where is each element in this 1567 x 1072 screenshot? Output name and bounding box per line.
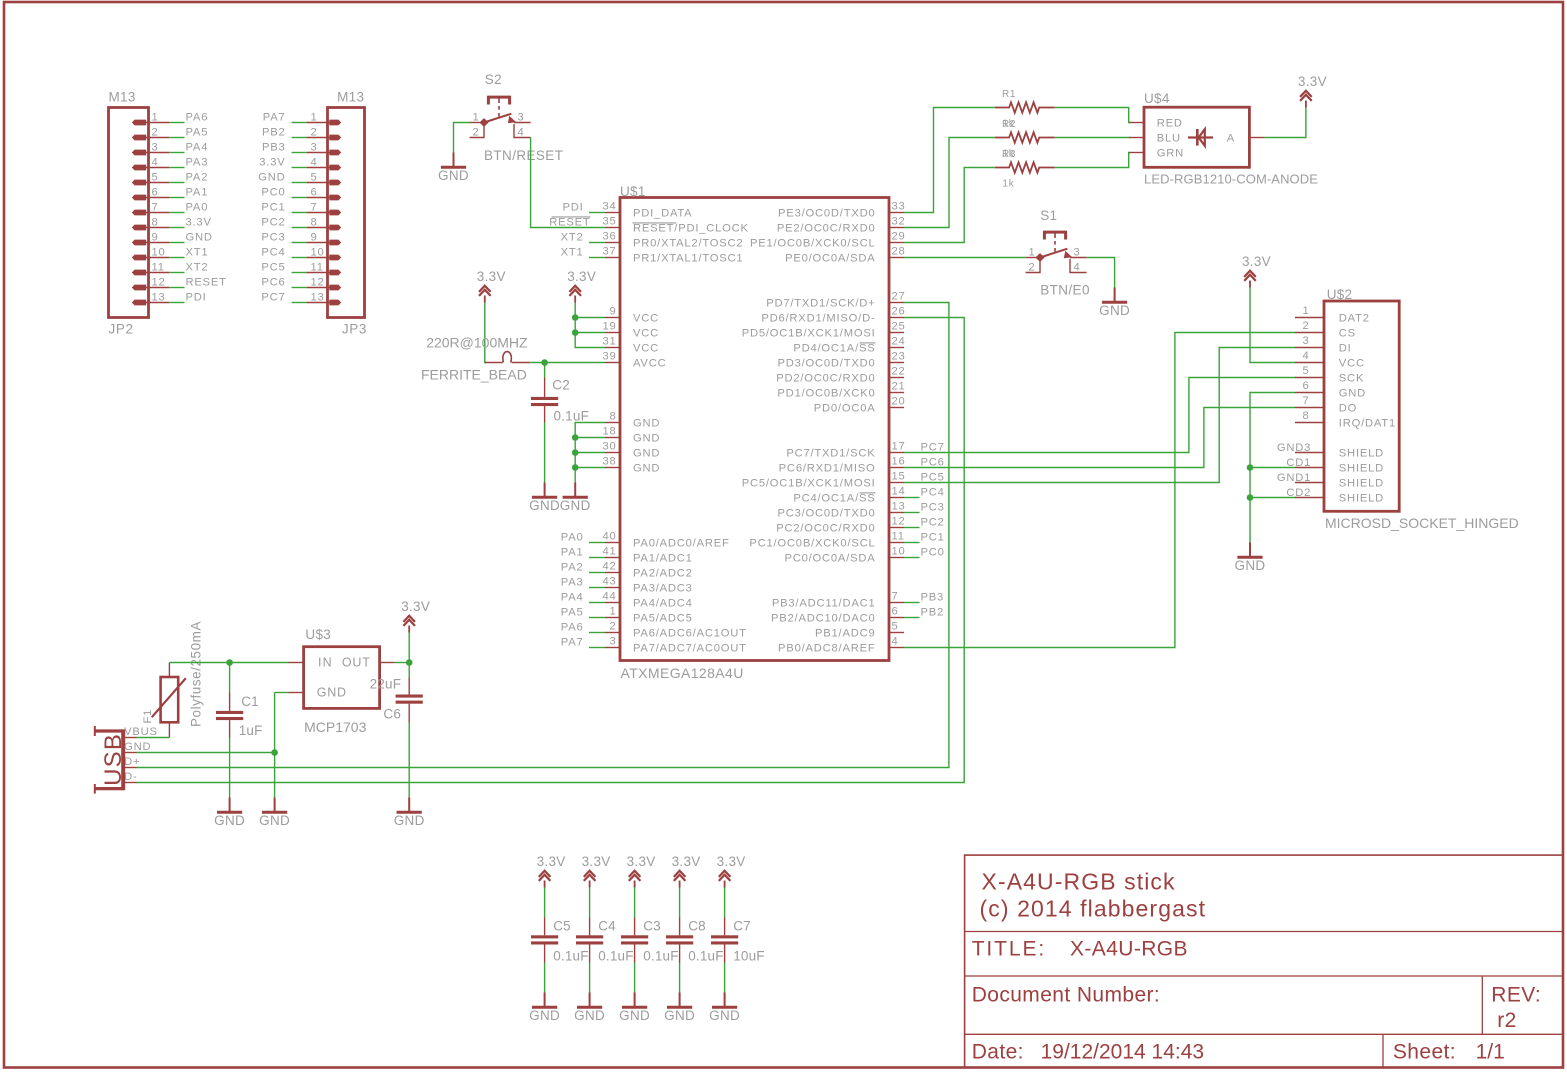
svg-text:14: 14 (892, 486, 906, 498)
ground below C1 (214, 798, 245, 829)
svg-text:10: 10 (892, 546, 906, 558)
svg-text:GND: GND (394, 813, 425, 828)
wire VCC pin 9 (575, 317, 605, 319)
svg-text:3.3V: 3.3V (627, 854, 656, 869)
svg-text:7: 7 (152, 202, 159, 214)
svg-text:U$2: U$2 (1327, 287, 1353, 302)
svg-text:(c) 2014 flabbergast: (c) 2014 flabbergast (980, 896, 1207, 922)
svg-text:31: 31 (602, 336, 616, 348)
wire GND pin 38 (575, 467, 605, 469)
supply 3.3V above ferrite bead (477, 269, 506, 302)
svg-text:37: 37 (602, 246, 616, 258)
svg-text:GRN: GRN (1157, 148, 1184, 160)
svg-text:Sheet:: Sheet: (1393, 1041, 1456, 1064)
svg-text:PR1/XTAL1/TOSC1: PR1/XTAL1/TOSC1 (633, 253, 743, 265)
svg-text:GND: GND (258, 172, 285, 184)
svg-text:10: 10 (311, 247, 325, 259)
svg-text:5: 5 (1302, 365, 1309, 377)
svg-text:2: 2 (311, 127, 318, 139)
svg-text:GND: GND (619, 1008, 650, 1023)
capacitor C3 0.1uF (621, 918, 679, 964)
svg-text:C5: C5 (553, 919, 571, 934)
svg-text:PA7: PA7 (263, 112, 286, 124)
svg-text:13: 13 (311, 292, 325, 304)
svg-text:4: 4 (892, 636, 899, 648)
svg-text:VCC: VCC (633, 343, 659, 355)
svg-text:IRQ/DAT1: IRQ/DAT1 (1339, 418, 1396, 430)
capacitor C5 0.1uF (531, 918, 589, 964)
svg-text:PA1: PA1 (561, 547, 584, 559)
svg-text:19/12/2014 14:43: 19/12/2014 14:43 (1041, 1041, 1205, 1064)
svg-text:3.3V: 3.3V (537, 854, 566, 869)
svg-text:6: 6 (152, 187, 159, 199)
svg-text:PB1/ADC9: PB1/ADC9 (815, 628, 876, 640)
svg-text:PC7/TXD1/SCK: PC7/TXD1/SCK (786, 448, 875, 460)
resistor R2 1k (995, 119, 1055, 160)
supply 3.3V at regulator output (401, 599, 430, 632)
svg-text:GND: GND (633, 448, 660, 460)
svg-text:C3: C3 (643, 919, 661, 934)
svg-text:12: 12 (311, 277, 325, 289)
net labels PC7 PC6 PC5 on SD wires (921, 442, 945, 484)
svg-text:12: 12 (152, 277, 166, 289)
svg-text:AVCC: AVCC (633, 358, 666, 370)
svg-text:220R@100MHZ: 220R@100MHZ (426, 334, 528, 350)
wire C2 top (544, 363, 546, 378)
svg-text:PB3: PB3 (921, 592, 945, 604)
svg-text:4: 4 (518, 127, 525, 139)
resistor R3 1k (995, 149, 1055, 190)
svg-text:3.3V: 3.3V (1242, 254, 1271, 269)
svg-text:C2: C2 (552, 378, 570, 393)
svg-text:1: 1 (472, 112, 479, 124)
svg-text:SHIELD: SHIELD (1339, 478, 1384, 490)
svg-text:15: 15 (892, 471, 906, 483)
svg-text:PA4: PA4 (186, 142, 209, 154)
svg-text:39: 39 (602, 351, 616, 363)
svg-text:22uF: 22uF (370, 676, 402, 691)
ground below S2 (438, 153, 469, 184)
svg-text:Document Number:: Document Number: (972, 984, 1160, 1007)
svg-text:1: 1 (152, 112, 159, 124)
svg-text:34: 34 (602, 201, 616, 213)
wire F1 to U$3 IN (169, 662, 288, 664)
svg-text:26: 26 (892, 306, 906, 318)
svg-text:PC4/OC1A/SS: PC4/OC1A/SS (793, 493, 875, 505)
svg-text:PC4: PC4 (921, 487, 945, 499)
svg-text:M13: M13 (109, 90, 136, 105)
svg-text:PC5: PC5 (261, 262, 285, 274)
svg-text:GND: GND (259, 813, 290, 828)
svg-text:PC0/OC0A/SDA: PC0/OC0A/SDA (784, 553, 875, 565)
svg-text:CS: CS (1339, 328, 1356, 340)
title field Document Number (972, 984, 1160, 1007)
svg-text:Date:: Date: (972, 1041, 1024, 1064)
wire C1 top (229, 663, 231, 693)
wire D- : USB to U$1 pin 26 (137, 318, 965, 783)
svg-text:DO: DO (1339, 403, 1357, 415)
wire VCC rail to pins 9/19/31 (575, 303, 605, 348)
svg-text:8: 8 (152, 217, 159, 229)
ground below C5 (529, 993, 560, 1024)
svg-text:GND: GND (633, 433, 660, 445)
wire GND pin 30 (575, 452, 605, 454)
svg-text:PD5/OC1B/XCK1/MOSI: PD5/OC1B/XCK1/MOSI (742, 328, 876, 340)
wire C4 top (589, 888, 591, 918)
svg-text:6: 6 (311, 187, 318, 199)
svg-text:GND: GND (1235, 558, 1266, 573)
svg-text:RESET: RESET (186, 277, 227, 289)
svg-text:GND: GND (317, 686, 347, 700)
svg-text:BTN/E0: BTN/E0 (1040, 282, 1090, 297)
svg-text:1: 1 (1028, 247, 1035, 259)
svg-text:PD1/OC0B/XCK0: PD1/OC0B/XCK0 (777, 388, 875, 400)
svg-text:OUT: OUT (342, 656, 371, 670)
title field Sheet (1393, 1041, 1505, 1064)
wire U$1 pin28 to S1 pin1 (904, 257, 1026, 259)
ground below S1 (1099, 288, 1130, 319)
svg-text:9: 9 (152, 232, 159, 244)
svg-text:2: 2 (609, 621, 616, 633)
wire U$4 anode to 3.3V (1264, 108, 1306, 138)
svg-text:PE3/OC0D/TXD0: PE3/OC0D/TXD0 (778, 208, 875, 220)
net label XT1 (pin 37) (561, 247, 605, 259)
svg-text:VBUS: VBUS (124, 726, 158, 738)
svg-text:PA1: PA1 (186, 187, 209, 199)
wire R3 to U$4 GRN (1055, 153, 1130, 168)
LED U$4 LED-RGB1210-COM-ANODE (1129, 91, 1318, 187)
svg-text:22: 22 (892, 366, 906, 378)
junction CD2 (1247, 494, 1254, 501)
svg-text:11: 11 (892, 531, 905, 543)
svg-text:PD4/OC1A/SS: PD4/OC1A/SS (793, 343, 875, 355)
svg-text:3: 3 (1074, 247, 1081, 259)
svg-text:PA5: PA5 (561, 607, 584, 619)
ground below C3 (619, 993, 650, 1024)
svg-text:23: 23 (892, 351, 906, 363)
connector JP2 (M13 header) (109, 90, 170, 337)
wire USB GND to U$3 GND (137, 752, 275, 754)
junction USB GND (271, 749, 278, 756)
svg-text:GND: GND (529, 498, 560, 513)
svg-text:U$4: U$4 (1144, 91, 1170, 106)
svg-text:PB2: PB2 (262, 127, 286, 139)
svg-text:3.3V: 3.3V (717, 854, 746, 869)
polyfuse F1 Polyfuse/250mA (142, 621, 204, 738)
svg-text:10: 10 (152, 247, 166, 259)
wire C6 top (408, 663, 410, 678)
ferrite bead FERRITE_BEAD 220R@100MHZ (421, 334, 530, 382)
svg-text:C4: C4 (598, 919, 616, 934)
svg-text:3: 3 (518, 112, 525, 124)
svg-text:X-A4U-RGB: X-A4U-RGB (1070, 938, 1188, 961)
svg-text:PR0/XTAL2/TOSC2: PR0/XTAL2/TOSC2 (633, 238, 743, 250)
junction CD1 (1247, 464, 1254, 471)
svg-text:0.1uF: 0.1uF (688, 948, 724, 963)
svg-text:PC2/OC0C/RXD0: PC2/OC0C/RXD0 (776, 523, 875, 535)
wire C5 top (544, 888, 546, 918)
svg-text:F1: F1 (142, 709, 154, 724)
svg-text:SHIELD: SHIELD (1339, 493, 1384, 505)
svg-text:PC3: PC3 (261, 232, 285, 244)
svg-text:19: 19 (602, 321, 616, 333)
wire U$2 VCC to 3.3V (1250, 288, 1295, 363)
svg-text:JP2: JP2 (109, 321, 134, 336)
svg-text:PA7/ADC7/AC0OUT: PA7/ADC7/AC0OUT (633, 643, 747, 655)
svg-text:2: 2 (1302, 320, 1309, 332)
svg-text:3.3V: 3.3V (582, 854, 611, 869)
svg-text:R1: R1 (1002, 89, 1016, 100)
svg-text:9: 9 (609, 306, 616, 318)
pushbutton S1 BTN/E0 (1026, 208, 1090, 297)
svg-text:5: 5 (311, 172, 318, 184)
svg-text:3.3V: 3.3V (477, 269, 506, 284)
PC4-PC0, PB3, PB2 net stubs and labels (904, 487, 945, 619)
svg-text:PB2/ADC10/DAC0: PB2/ADC10/DAC0 (771, 613, 875, 625)
title field Date (972, 1041, 1204, 1064)
capacitor C2 0.1uF (531, 378, 589, 424)
svg-text:3.3V: 3.3V (672, 854, 701, 869)
svg-text:VCC: VCC (1339, 358, 1365, 370)
supply 3.3V at U$4 (1298, 74, 1327, 107)
wire C4 bottom (589, 963, 591, 993)
svg-text:28: 28 (892, 246, 906, 258)
svg-text:PC7: PC7 (261, 292, 285, 304)
svg-text:43: 43 (602, 576, 616, 588)
svg-text:PA4: PA4 (561, 592, 584, 604)
resistor R1 1k (995, 89, 1055, 130)
capacitor C6 22uF (370, 676, 423, 722)
svg-text:8: 8 (609, 411, 616, 423)
svg-text:3.3V: 3.3V (567, 269, 596, 284)
svg-text:25: 25 (892, 321, 906, 333)
wire C7 bottom (724, 963, 726, 993)
svg-text:U$3: U$3 (305, 627, 331, 642)
wire R2 to U$4 BLU (1055, 137, 1130, 139)
svg-text:PA3: PA3 (561, 577, 584, 589)
svg-text:X-A4U-RGB stick: X-A4U-RGB stick (982, 868, 1176, 894)
svg-text:GND: GND (438, 168, 469, 183)
svg-text:PD2/OC0C/RXD0: PD2/OC0C/RXD0 (776, 373, 875, 385)
svg-text:PA5/ADC5: PA5/ADC5 (633, 613, 693, 625)
svg-text:12: 12 (892, 516, 906, 528)
wire C8 bottom (679, 963, 681, 993)
svg-text:r2: r2 (1497, 1009, 1516, 1032)
JP2 pin net wires and labels (169, 112, 227, 304)
capacitor C8 0.1uF (666, 918, 724, 964)
svg-text:2: 2 (152, 127, 159, 139)
svg-text:GND: GND (124, 741, 151, 753)
svg-text:0.1uF: 0.1uF (553, 948, 589, 963)
svg-text:PD7/TXD1/SCK/D+: PD7/TXD1/SCK/D+ (766, 298, 875, 310)
wire R1 to U$4 RED (1055, 108, 1130, 123)
svg-text:0.1uF: 0.1uF (554, 409, 590, 424)
svg-text:21: 21 (892, 381, 906, 393)
JP3 pin net wires and labels (258, 112, 306, 304)
junction GND pin18 (572, 434, 579, 441)
svg-text:PC4: PC4 (261, 247, 285, 259)
svg-text:PC1/OC0B/XCK0/SCL: PC1/OC0B/XCK0/SCL (749, 538, 875, 550)
svg-text:PA6/ADC6/AC1OUT: PA6/ADC6/AC1OUT (633, 628, 747, 640)
wire PC5 to U$2 DI (904, 348, 1295, 483)
title text X-A4U-RGB stick (980, 868, 1207, 921)
svg-text:PC3/OC0D/TXD0: PC3/OC0D/TXD0 (777, 508, 875, 520)
svg-text:13: 13 (892, 501, 906, 513)
svg-text:PA2: PA2 (186, 172, 209, 184)
svg-text:GND: GND (1099, 303, 1130, 318)
PA0-PA7 net stubs and labels (561, 532, 605, 649)
wire CD2 stub (1250, 497, 1295, 499)
wire C1 bottom to GND (229, 738, 231, 798)
svg-text:PC1: PC1 (261, 202, 285, 214)
svg-text:6: 6 (1302, 380, 1309, 392)
svg-text:JP3: JP3 (342, 321, 367, 336)
wire RESET net S2 pin4 to U$1 pin 35 (531, 138, 605, 228)
junction GND pin38 (572, 464, 579, 471)
svg-text:3: 3 (1302, 335, 1309, 347)
svg-text:PC3: PC3 (921, 502, 945, 514)
capacitor C7 10uF (711, 918, 765, 964)
svg-text:32: 32 (892, 216, 906, 228)
ground below C7 (709, 993, 740, 1024)
svg-text:D+: D+ (124, 756, 140, 768)
svg-text:PA6: PA6 (561, 622, 584, 634)
wire S1 pin3 to GND (1087, 258, 1115, 288)
svg-text:24: 24 (892, 336, 906, 348)
svg-text:PE2/OC0C/RXD0: PE2/OC0C/RXD0 (777, 223, 876, 235)
wire U$1 pin33 to R1 (904, 108, 995, 213)
ground below C4 (574, 993, 605, 1024)
svg-text:44: 44 (602, 591, 616, 603)
junction GND pin30 (572, 449, 579, 456)
svg-text:7: 7 (892, 591, 899, 603)
svg-text:PE0/OC0A/SDA: PE0/OC0A/SDA (785, 253, 875, 265)
svg-text:C6: C6 (383, 707, 401, 722)
wire C6 bottom to GND (408, 723, 410, 798)
U$1 right pins with numbers and names (742, 201, 906, 655)
svg-text:S1: S1 (1040, 208, 1057, 223)
wire AVCC net: bead to U$1 pin 39 (530, 362, 605, 364)
svg-text:MICROSD_SOCKET_HINGED: MICROSD_SOCKET_HINGED (1325, 515, 1519, 531)
wire C8 top (679, 888, 681, 918)
net label XT2 (pin 36) (561, 232, 605, 244)
wire S2 pin1 to GND (454, 123, 471, 153)
svg-text:R3: R3 (1002, 149, 1016, 160)
svg-text:1: 1 (1302, 305, 1309, 317)
svg-text:GND: GND (574, 1008, 605, 1023)
svg-text:PA5: PA5 (186, 127, 209, 139)
svg-text:5: 5 (892, 621, 899, 633)
svg-text:2: 2 (1028, 262, 1035, 274)
svg-text:GND3: GND3 (1277, 442, 1311, 454)
svg-text:PC0: PC0 (921, 547, 945, 559)
svg-text:10uF: 10uF (733, 948, 765, 963)
svg-text:PE1/OC0B/XCK0/SCL: PE1/OC0B/XCK0/SCL (750, 238, 876, 250)
svg-text:38: 38 (602, 456, 616, 468)
wire C7 top (724, 888, 726, 918)
svg-text:PDI_DATA: PDI_DATA (633, 208, 692, 220)
svg-text:35: 35 (602, 216, 616, 228)
svg-text:A: A (1227, 133, 1235, 145)
svg-text:PB2: PB2 (921, 607, 945, 619)
svg-text:1: 1 (609, 606, 616, 618)
svg-text:DAT2: DAT2 (1339, 313, 1370, 325)
ground below C6 (394, 798, 425, 829)
supply 3.3V above C5 (537, 854, 566, 887)
svg-text:C8: C8 (688, 919, 706, 934)
svg-text:7: 7 (1302, 395, 1309, 407)
svg-text:PDI: PDI (186, 292, 207, 304)
supply 3.3V above C8 (672, 854, 701, 887)
wire U$1 pin29 to R3 (904, 168, 995, 243)
svg-text:0.1uF: 0.1uF (643, 948, 679, 963)
svg-text:40: 40 (602, 531, 616, 543)
wire U$2 GND rail (1250, 393, 1295, 543)
svg-text:GND: GND (633, 463, 660, 475)
svg-text:PC1: PC1 (921, 532, 945, 544)
svg-text:3.3V: 3.3V (186, 217, 212, 229)
svg-text:PA0: PA0 (186, 202, 209, 214)
supply 3.3V at VCC rail (567, 269, 596, 302)
svg-text:USB: USB (100, 733, 127, 786)
card socket U$2 MICROSD_SOCKET_HINGED (1277, 287, 1519, 531)
net label PDI (pin 34) (562, 202, 605, 214)
svg-text:BLU: BLU (1157, 133, 1181, 145)
svg-text:PA2: PA2 (561, 562, 584, 574)
title field REV r2 (1491, 984, 1541, 1033)
svg-text:4: 4 (1074, 262, 1081, 274)
svg-text:30: 30 (602, 441, 616, 453)
wire GND pin 18 (575, 437, 605, 439)
svg-text:PC6/RXD1/MISO: PC6/RXD1/MISO (779, 463, 876, 475)
svg-text:20: 20 (892, 396, 906, 408)
svg-text:4: 4 (311, 157, 318, 169)
svg-text:6: 6 (892, 606, 899, 618)
svg-text:PA0: PA0 (561, 532, 584, 544)
svg-text:42: 42 (602, 561, 616, 573)
svg-text:SCK: SCK (1339, 373, 1364, 385)
svg-text:R2: R2 (1002, 119, 1016, 130)
svg-text:PC5: PC5 (921, 472, 945, 484)
title field TITLE (972, 938, 1188, 961)
ground below U$3 (259, 798, 290, 829)
svg-text:PB3: PB3 (262, 142, 286, 154)
ground below C2 (529, 483, 560, 514)
svg-text:1k: 1k (1002, 179, 1014, 190)
svg-text:RED: RED (1157, 118, 1183, 130)
svg-text:GND: GND (560, 498, 591, 513)
svg-text:C1: C1 (241, 694, 259, 709)
svg-text:PC6: PC6 (921, 457, 945, 469)
svg-text:REV:: REV: (1491, 984, 1541, 1007)
svg-text:D-: D- (124, 771, 137, 783)
wire C3 top (634, 888, 636, 918)
svg-text:GND: GND (709, 1008, 740, 1023)
svg-text:LED-RGB1210-COM-ANODE: LED-RGB1210-COM-ANODE (1144, 172, 1318, 187)
ground below GND rail (560, 483, 591, 514)
capacitor C4 0.1uF (576, 918, 634, 964)
wire 3.3V to ferrite bead (485, 303, 486, 363)
svg-text:GND1: GND1 (1277, 472, 1311, 484)
junction VCC pin9 (572, 314, 579, 321)
svg-text:29: 29 (892, 231, 906, 243)
wire C5 bottom (544, 963, 546, 993)
svg-text:3: 3 (609, 636, 616, 648)
svg-text:FERRITE_BEAD: FERRITE_BEAD (421, 366, 527, 382)
svg-text:36: 36 (602, 231, 616, 243)
svg-text:PD3/OC0D/TXD0: PD3/OC0D/TXD0 (777, 358, 875, 370)
svg-text:U$1: U$1 (620, 184, 646, 199)
